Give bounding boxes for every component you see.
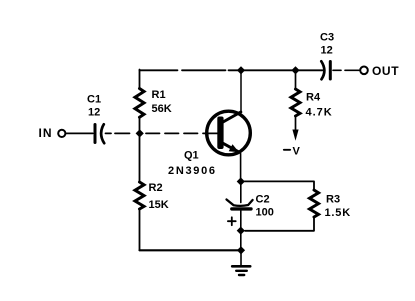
value 1.5K xyxy=(325,207,351,219)
label IN xyxy=(39,126,53,140)
node B junction xyxy=(237,227,245,235)
transistor Q1 collector stroke xyxy=(223,112,241,122)
transistor Q1 circle xyxy=(207,111,251,155)
terminal IN xyxy=(58,130,65,137)
svg-text:12: 12 xyxy=(88,107,100,119)
node emitter junction A xyxy=(237,177,245,185)
svg-text:C1: C1 xyxy=(87,94,101,106)
wire C1 to base node (dashed) xyxy=(106,132,130,134)
svg-text:R4: R4 xyxy=(306,92,321,104)
label R1 xyxy=(152,89,166,101)
svg-text:V: V xyxy=(293,146,301,158)
wire node B to bottom rail xyxy=(240,234,242,250)
value 100 xyxy=(256,207,274,219)
resistor R2 xyxy=(135,182,144,209)
capacitor C1 xyxy=(95,124,104,143)
wire emitter node to R3 xyxy=(245,181,315,190)
wire bottom rail xyxy=(140,249,242,251)
value 12 (C1) xyxy=(88,107,100,119)
node R4 top rail junction xyxy=(291,66,299,74)
wire node to transistor base (dashed) xyxy=(146,132,205,134)
capacitor C3 straight plate xyxy=(329,62,332,80)
svg-text:C2: C2 xyxy=(256,194,270,206)
label R2 xyxy=(149,182,163,194)
wire IN to C1 xyxy=(66,132,93,134)
label R3 xyxy=(326,193,340,205)
svg-text:100: 100 xyxy=(256,207,274,219)
resistor R1 xyxy=(135,89,144,118)
svg-text:C3: C3 xyxy=(320,32,334,44)
value 56K xyxy=(152,103,172,115)
value 12 (C3) xyxy=(321,45,333,57)
label -V xyxy=(284,146,301,158)
svg-text:IN: IN xyxy=(39,126,53,140)
wire R4 top xyxy=(295,70,297,89)
svg-text:4.7K: 4.7K xyxy=(306,107,333,119)
svg-text:56K: 56K xyxy=(152,103,172,115)
svg-text:R3: R3 xyxy=(326,193,340,205)
node top rail / collector xyxy=(237,66,245,74)
wire left vertical (R1/R2 branch) xyxy=(139,70,141,251)
label C1 xyxy=(87,94,101,106)
transistor Q1 base lead xyxy=(205,132,217,134)
capacitor C2 straight plate xyxy=(232,207,251,210)
wire C2 to node B xyxy=(240,211,242,231)
wire R3 bottom to node B xyxy=(245,217,314,231)
transistor Q1 emitter stroke xyxy=(223,143,239,152)
label OUT xyxy=(372,64,399,78)
node base junction xyxy=(136,129,144,137)
svg-text:Q1: Q1 xyxy=(184,150,199,162)
svg-text:R2: R2 xyxy=(149,182,163,194)
svg-text:2N3906: 2N3906 xyxy=(168,165,217,177)
value 15K xyxy=(149,199,169,211)
terminal OUT xyxy=(360,67,368,75)
wire collector to top rail xyxy=(240,70,242,111)
svg-text:1.5K: 1.5K xyxy=(325,207,351,219)
resistor R3 xyxy=(310,190,319,217)
transistor Q1 emitter arrow xyxy=(229,144,239,152)
wire emitter down xyxy=(240,154,242,182)
svg-text:12: 12 xyxy=(321,45,333,57)
wire emitter node down to C2 xyxy=(240,185,242,203)
ground xyxy=(232,252,250,275)
node bottom rail junction xyxy=(237,246,245,254)
label C2 xyxy=(256,194,270,206)
wire C3 to OUT (dashed) xyxy=(333,69,359,71)
resistor R4 xyxy=(291,89,300,116)
capacitor C3 curved plate xyxy=(321,61,324,79)
svg-text:R1: R1 xyxy=(152,89,166,101)
label Q1 xyxy=(184,150,199,162)
capacitor C2 plus sign xyxy=(228,217,236,225)
svg-text:OUT: OUT xyxy=(372,64,399,78)
svg-text:15K: 15K xyxy=(149,199,169,211)
wire R4 bottom to arrow xyxy=(295,116,297,130)
value 4.7K xyxy=(306,107,333,119)
value 2N3906 xyxy=(168,165,217,177)
wire top rail xyxy=(140,69,323,71)
capacitor C2 curved plate xyxy=(227,200,253,206)
label R4 xyxy=(306,92,321,104)
supply arrow -V xyxy=(292,130,298,141)
transistor Q1 base bar xyxy=(217,117,223,150)
label C3 xyxy=(320,32,334,44)
